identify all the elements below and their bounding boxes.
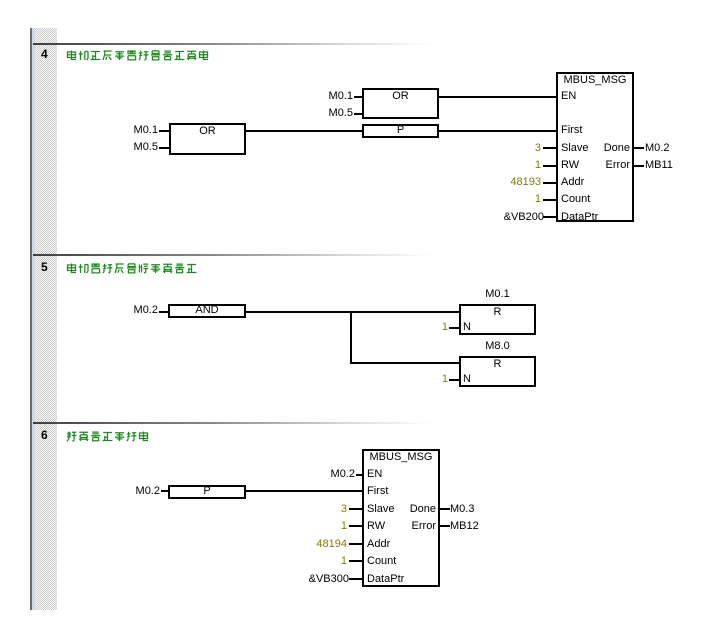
P trigger block P1 xyxy=(362,124,439,138)
U2 pin Done xyxy=(366,503,436,516)
wire M0.1 to OR1 xyxy=(159,130,169,132)
wire OR1 out to P block xyxy=(244,130,364,132)
OR2 label xyxy=(362,90,439,103)
U2 Done stub xyxy=(438,508,450,510)
node M0.1 label (OR2 in1) xyxy=(315,90,353,103)
U2 input pin stub xyxy=(349,543,362,545)
node M0.1 label (OR1 in1) xyxy=(120,124,158,137)
U1 pin Done xyxy=(560,142,630,155)
node M0.2 label (U2 EN) xyxy=(317,468,355,481)
U2 pin First xyxy=(367,485,388,498)
U1 pin Error xyxy=(560,159,630,172)
network 6 title comment xyxy=(66,430,150,443)
node M0.2 (U1 Done out) xyxy=(645,142,669,155)
network 4 separator xyxy=(33,43,433,45)
node M0.5 label (OR2 in2) xyxy=(315,107,353,120)
OR block OR2 xyxy=(362,88,439,119)
node MB12 (U2 Error out) xyxy=(450,520,479,533)
P trigger block P2 xyxy=(168,485,246,499)
network 6 number xyxy=(41,429,48,442)
U2 Error stub xyxy=(438,525,450,527)
R2 pin N xyxy=(463,373,471,386)
U1 pin Count xyxy=(561,193,590,206)
U2 pin DataPtr xyxy=(367,573,404,586)
U1 Slave value 3 xyxy=(480,142,541,155)
R reset block R2 xyxy=(459,356,536,387)
wire P2 out to U2 First xyxy=(244,490,364,492)
U1 pin Addr xyxy=(561,176,584,189)
R reset block R1 xyxy=(459,304,536,335)
U2 Slave value 3 xyxy=(286,503,347,516)
network 5 title comment xyxy=(66,262,198,275)
U2 Addr value 48194 xyxy=(286,538,347,551)
wire M0.2 to AND xyxy=(159,311,168,313)
wire M0.2 to U2 EN xyxy=(356,474,364,476)
U1 pin DataPtr xyxy=(561,211,598,224)
node M8.0 label above R2 xyxy=(459,340,536,353)
sidebar blue strip xyxy=(32,28,35,610)
wire branch down xyxy=(350,311,352,364)
network 4 number xyxy=(41,48,48,61)
network 5 number xyxy=(41,261,48,274)
U1 DataPtr value &amp;VB200 xyxy=(473,211,544,224)
wire M0.2 to P2 xyxy=(161,490,169,492)
U1 Error stub xyxy=(632,165,644,167)
wire AND out to R1 xyxy=(244,311,461,313)
MBUS_MSG block U1 xyxy=(556,72,634,222)
MBUS_MSG block U2 xyxy=(362,449,440,587)
U1 Done stub xyxy=(632,147,644,149)
U2 input pin stub xyxy=(349,525,362,527)
wire OR2 out to EN xyxy=(437,96,558,98)
R2 N value 1 xyxy=(420,373,448,386)
network 6 separator xyxy=(33,422,433,424)
wire P1 out to First xyxy=(437,130,558,132)
node MB11 (U1 Error out) xyxy=(645,159,673,172)
U1 pin EN xyxy=(561,90,576,103)
U2 input pin stub xyxy=(349,560,362,562)
U2 DataPtr value &amp;VB300 xyxy=(278,573,349,586)
U2 pin EN xyxy=(367,468,382,481)
U2 title xyxy=(362,451,440,464)
node M0.3 (U2 Done out) xyxy=(450,503,474,516)
U2 pin RW xyxy=(367,520,385,533)
node M0.1 label above R1 xyxy=(459,288,536,301)
wire branch to R2 xyxy=(350,362,461,364)
OR1 label xyxy=(169,125,246,138)
node M0.5 label (OR1 in2) xyxy=(120,141,158,154)
A1 label xyxy=(168,305,246,316)
U1 input pin stub xyxy=(543,147,556,149)
P1 label xyxy=(362,125,439,136)
sidebar dithered area xyxy=(35,28,57,610)
U1 pin RW xyxy=(561,159,579,172)
wire M0.5 to OR2 xyxy=(354,113,364,115)
U1 Addr value 48193 xyxy=(480,176,541,189)
U1 title xyxy=(556,74,634,87)
U1 RW value 1 xyxy=(480,159,541,172)
network 4 title comment xyxy=(66,49,210,62)
R1 pin N xyxy=(463,321,471,334)
U1 Count value 1 xyxy=(480,193,541,206)
U2 RW value 1 xyxy=(286,520,347,533)
U1 pin Slave xyxy=(561,142,589,155)
sidebar dark edge xyxy=(30,28,32,610)
U1 pin First xyxy=(561,124,582,137)
U1 input pin stub xyxy=(543,182,556,184)
P2 label xyxy=(168,486,246,497)
node M0.2 label (AND in) xyxy=(120,304,158,317)
wire M0.5 to OR1 xyxy=(159,147,169,149)
R2 title xyxy=(459,358,536,371)
node M0.2 label (P2 in) xyxy=(122,485,160,498)
U2 pin Count xyxy=(367,555,396,568)
U2 pin Error xyxy=(366,520,436,533)
network 5 separator xyxy=(33,254,433,256)
R2 N stub xyxy=(449,379,459,381)
U1 input pin stub xyxy=(543,216,556,218)
U2 input pin stub xyxy=(349,508,362,510)
U2 input pin stub xyxy=(349,578,362,580)
U2 pin Slave xyxy=(367,503,395,516)
AND block A1 xyxy=(168,304,246,318)
U2 pin Addr xyxy=(367,538,390,551)
wire M0.1 to OR2 xyxy=(354,96,364,98)
U2 Count value 1 xyxy=(286,555,347,568)
OR block OR1 xyxy=(169,123,246,155)
U1 input pin stub xyxy=(543,165,556,167)
R1 N value 1 xyxy=(420,321,448,334)
U1 input pin stub xyxy=(543,199,556,201)
R1 N stub xyxy=(449,327,459,329)
R1 title xyxy=(459,306,536,319)
